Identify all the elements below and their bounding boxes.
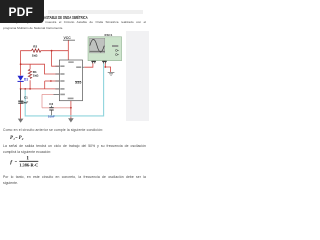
svg-text:1.386·R·C: 1.386·R·C [19, 162, 38, 167]
svg-text:D1: D1 [24, 77, 28, 81]
svg-text:1: 1 [26, 156, 29, 162]
svg-text:1kΩ: 1kΩ [33, 73, 39, 77]
svg-text:f: f [10, 159, 13, 165]
svg-text:100nF: 100nF [20, 100, 29, 104]
svg-text:C2: C2 [49, 102, 53, 106]
svg-text:1kΩ: 1kΩ [32, 54, 38, 58]
svg-text:10nF: 10nF [48, 115, 55, 119]
svg-text:VCC: VCC [64, 36, 72, 40]
svg-text:=: = [15, 159, 18, 164]
svg-text:2: 2 [21, 137, 24, 141]
svg-text:C1: C1 [24, 96, 28, 100]
svg-text:555: 555 [75, 81, 81, 85]
svg-text:R2: R2 [33, 44, 37, 48]
